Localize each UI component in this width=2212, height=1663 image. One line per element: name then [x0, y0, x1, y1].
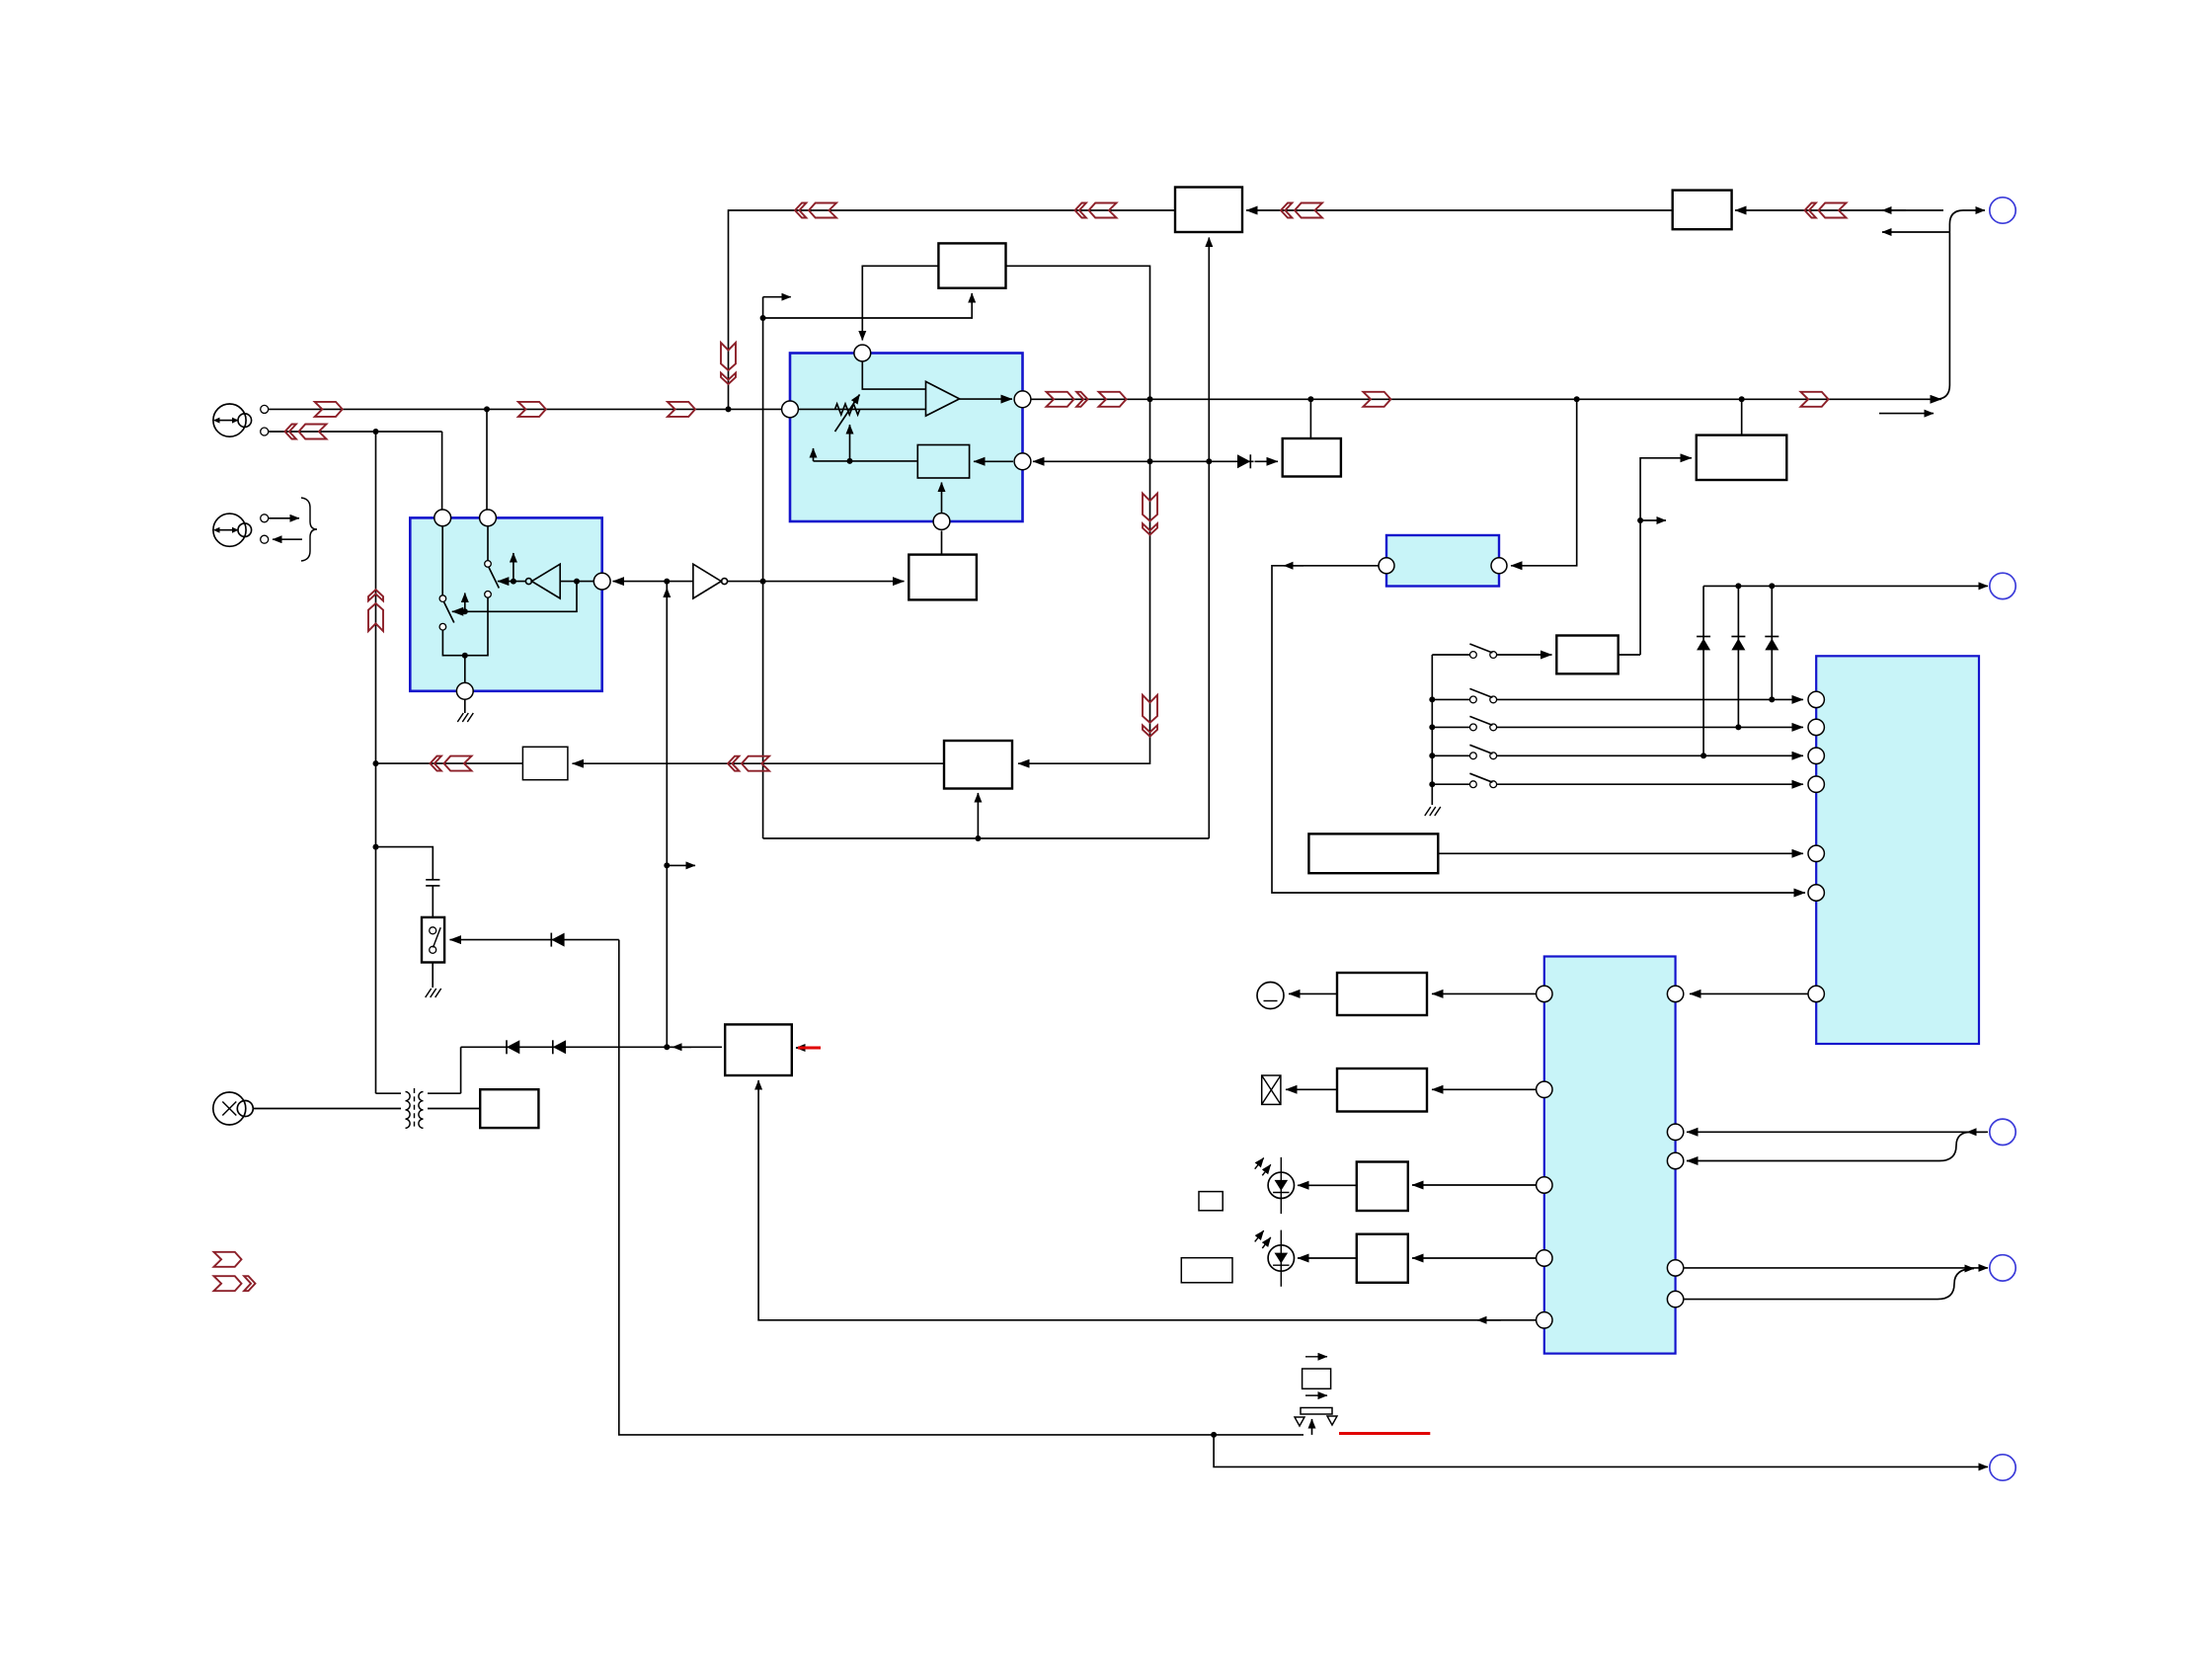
wire J2-1 stub arrow [269, 517, 299, 519]
switch SW3 [1469, 716, 1496, 730]
box E [1697, 436, 1787, 480]
wire inverter out to AGC box [728, 581, 905, 583]
wire SW4 to IC4 [1497, 754, 1803, 756]
arrow stub up IC2 left [813, 448, 815, 461]
connector OUT4 (blue) [1990, 1255, 2015, 1281]
wire boxJ to LED1 [1298, 1184, 1357, 1186]
transformer core [414, 1088, 416, 1130]
box F [1556, 636, 1618, 674]
wire IC5 to boxJ [1412, 1184, 1537, 1186]
wire D7 vertical [1771, 586, 1773, 699]
ground relay [426, 989, 441, 997]
capacitor C1 [426, 880, 439, 886]
wire xfmr secondary mid [428, 1108, 480, 1110]
wire boxG to IC4 [1438, 852, 1803, 854]
wire J2-2 stub arrow [273, 538, 302, 540]
IC5 pin Lh [1537, 986, 1552, 1001]
junction input/feedback [726, 406, 732, 412]
junction bus row2 [1429, 696, 1435, 702]
inverter U2 [693, 564, 728, 598]
IC5 pin Lk [1537, 1250, 1552, 1266]
IC3 mute block [1386, 535, 1499, 587]
IC4 pin sw3 [1808, 748, 1824, 763]
arrow stub up IC1 B [513, 553, 514, 582]
wire boxM bottom feed [977, 793, 979, 838]
junction riser/boxTop feed [760, 315, 766, 321]
box M [944, 741, 1012, 789]
chevron ret 2 [1075, 203, 1117, 218]
wire relay to gnd [432, 963, 434, 989]
wire diode bus to OUT2 [1703, 585, 1988, 587]
junction fb/riser1164 [1147, 458, 1153, 464]
box J [1357, 1162, 1408, 1212]
wire stub OUT1 ring [1882, 231, 1949, 233]
junction bus row5 [1429, 781, 1435, 787]
wire IC5 to boxH [1432, 992, 1537, 994]
junction bus row4 [1429, 752, 1435, 758]
junction row2/diode D7 [1769, 696, 1775, 702]
wire boxF out [1619, 654, 1640, 656]
arrow stub up IC1 A [464, 594, 466, 612]
junction bus row3 [1429, 724, 1435, 730]
chevron down double 2 [1143, 695, 1157, 737]
wire IC5 R2 from OUT3 [1687, 1131, 1988, 1133]
connector OUT5 (blue) [1990, 1455, 2015, 1480]
chevron ret 4 [1805, 203, 1847, 218]
wire boxTop left to IC2 top pin [862, 266, 938, 340]
IC5 pin Rr4 [1667, 1260, 1683, 1276]
resistor VR1 (variable) in IC2 [835, 395, 860, 433]
wire IC3 to block4 [1272, 566, 1805, 893]
wire D6 vertical [1737, 586, 1739, 727]
box delay (above IC2) [938, 243, 1005, 287]
symbol battery-minus [1257, 983, 1284, 1009]
box L [522, 747, 568, 779]
wire diode to boxD [1255, 460, 1279, 462]
chevron out 2 [1099, 392, 1127, 407]
varistor symbol [1295, 1408, 1337, 1435]
wire IC1 crossbar A [452, 582, 577, 612]
arrow on IC3 left wire [1284, 565, 1303, 567]
wire bend to OUT1 [1935, 210, 1985, 399]
wire switch bus [1431, 655, 1433, 805]
junction input/block1 [484, 406, 490, 412]
wire boxM to boxL [573, 762, 945, 764]
wire main input line [269, 408, 785, 410]
connector OUT2 (blue) [1990, 573, 2015, 598]
IC3 pin right [1491, 558, 1507, 574]
wire to OUT5 [1214, 1435, 1988, 1467]
junction inverter input [664, 579, 670, 585]
wire to IC1 pin1 [441, 432, 443, 511]
wire IC2 top-pin stem [862, 361, 925, 389]
wire IC5 R3 from OUT3 ring [1687, 1160, 1939, 1162]
box G (long) [1308, 833, 1438, 873]
chevron left double boxM-L [728, 756, 769, 771]
wire amp out to pin [960, 398, 1012, 400]
connector J1 (top-left input jack) [213, 404, 252, 436]
diode D10 [551, 933, 564, 947]
box small1 [1199, 1192, 1223, 1211]
wire main output line [1031, 398, 1941, 400]
box P (power supply) [725, 1024, 792, 1075]
IC5 pin Rr1 [1667, 986, 1683, 1001]
IC1 pin gnd (bottom) [456, 682, 473, 699]
IC2 pin out (right) [1014, 391, 1031, 408]
relay switch box [422, 917, 444, 963]
wire SW5 to IC4 [1497, 783, 1803, 785]
junction dbus/D6 [1735, 583, 1741, 589]
wire xfmr primary top [376, 1092, 402, 1094]
wire ret mid [1246, 209, 1673, 211]
chevron input 1 [315, 402, 343, 417]
wire IC1 out to inverter [613, 581, 693, 583]
switch SW1 [1469, 644, 1496, 658]
IC1 pin out (right) [593, 573, 610, 590]
wire IC5 R4 to OUT4 [1684, 1267, 1988, 1269]
curve OUT4 ring [1937, 1269, 1974, 1300]
chevron ret 1 [795, 203, 836, 218]
IC5 pin Rr3 [1667, 1152, 1683, 1168]
box small2 [1181, 1258, 1232, 1283]
IC1 input switching block [410, 517, 601, 690]
wire bus to SW3 [1432, 726, 1469, 728]
chevron out double [1047, 392, 1088, 407]
wire diode to relay [450, 939, 619, 941]
diode D7 [1765, 637, 1778, 651]
wire J1-2 line [269, 431, 442, 433]
switch S1 in IC1 [485, 561, 500, 597]
box K [1357, 1234, 1408, 1283]
curve OUT3 ring [1939, 1132, 1971, 1160]
wire boxE top stem [1741, 399, 1743, 435]
chevron input 2 [518, 402, 546, 417]
chevron return double-left [285, 425, 327, 439]
switch SW2 [1469, 688, 1496, 702]
IC5 display/driver block [1544, 957, 1676, 1354]
tiny box status [1303, 1369, 1331, 1388]
arrow up into VR1 [849, 425, 851, 461]
arrow up into junction [666, 589, 668, 596]
IC4 system control block [1816, 656, 1979, 1044]
wire to IC1 pin2 [486, 409, 488, 511]
wire riser x675 [666, 582, 668, 1048]
wire boxH to headphone sym [1289, 992, 1337, 994]
wire IC1 internal v1b [442, 597, 488, 656]
IC4 pin sw1 [1808, 691, 1824, 707]
transformer T1 primary [406, 1092, 411, 1129]
arrow stub right x1661 [1640, 519, 1666, 521]
wire return line left [729, 210, 1176, 409]
junction boxE-feed stub [1637, 517, 1643, 523]
IC4 pin boxG [1808, 845, 1824, 861]
box T (regulator) [480, 1089, 538, 1128]
connector OUT1 (blue) [1990, 198, 2015, 223]
diode D5 [1697, 637, 1710, 651]
legend chevron single [214, 1252, 242, 1267]
wire D5 vertical [1702, 586, 1704, 755]
symbol X-box [1262, 1075, 1281, 1104]
junction out/block3 drop [1574, 396, 1580, 402]
wire riser with stub [763, 297, 791, 838]
wire xfmr to diode row [460, 1047, 462, 1093]
pin J2-2 [261, 535, 269, 543]
wire ctl pin to filter [941, 483, 943, 514]
IC2 pin in (left) [782, 401, 799, 418]
wire bus to SW1 [1432, 654, 1469, 656]
junction IC1 B [511, 579, 516, 585]
junction bottom wire [1211, 1432, 1217, 1438]
wire IC2 fb inner [814, 460, 918, 462]
inverter U1a in IC1 [525, 564, 593, 598]
pin J1-2 [261, 428, 269, 436]
chevron down double 1 [1143, 494, 1157, 535]
wire fb pin to filter [974, 460, 1013, 462]
junction fb/riser1224 [1206, 458, 1212, 464]
wire bus to SW5 [1432, 783, 1469, 785]
IC2 pin fb (right2) [1014, 453, 1031, 470]
junction left-bus [373, 429, 379, 435]
LED D9 [1255, 1230, 1295, 1287]
wire ACin to xfmr [254, 1108, 401, 1110]
IC4 pin sw2 [1808, 719, 1824, 735]
wire cross link y849 [763, 837, 1210, 839]
junction out/boxD [1307, 396, 1313, 402]
pin J1-1 [261, 405, 269, 413]
arrow on IC5-boxP wire [1477, 1319, 1501, 1321]
IC2 volume/amp block [790, 354, 1023, 522]
wire IC5 R5 to OUT4 ring [1684, 1299, 1937, 1301]
junction VR1 ctl [847, 458, 853, 464]
wire boxE left feed [1640, 458, 1692, 655]
arrow mid ret right [1882, 209, 1906, 211]
pin J2-1 [261, 515, 269, 522]
wire IC1 internal v2 [487, 526, 489, 561]
diode D4 [1237, 454, 1250, 468]
wire bus to SW4 [1432, 754, 1469, 756]
IC5 pin Rr5 [1667, 1291, 1683, 1307]
junction y849/boxM [975, 835, 981, 841]
junction IC1 inv input [574, 579, 580, 585]
IC4 pin mute [1808, 885, 1824, 901]
chevron up double on left bus [368, 590, 383, 631]
wire ret right [1735, 209, 1943, 211]
switch S2 in IC1 [439, 595, 454, 630]
diode D12 [553, 1040, 566, 1054]
junction row4/diode D5 [1700, 752, 1706, 758]
wire IC5 to boxI [1432, 1088, 1537, 1090]
wire IC5 to boxP [758, 1080, 1536, 1320]
wire IC2 input inner [799, 408, 926, 410]
power red line [798, 1047, 821, 1050]
arrow stub right x675 [667, 864, 695, 866]
wire IC1 S1 link [498, 581, 526, 583]
connector J2 (second input jack) [213, 514, 252, 546]
arrow into dbus junction [672, 1046, 691, 1048]
wire IC1 internal v1 [441, 526, 443, 595]
IC4 pin link [1808, 986, 1824, 1001]
wire IC5 to boxK [1412, 1257, 1537, 1259]
connector OUT3 (blue) [1990, 1119, 2015, 1145]
junction left bus / boxL wire [373, 760, 379, 766]
IC5 pin Rr2 [1667, 1124, 1683, 1140]
chevron down double feedback [721, 343, 736, 384]
IC5 pin Lj [1537, 1177, 1552, 1193]
IC3 pin left [1379, 558, 1394, 574]
wire bus to SW2 [1432, 698, 1469, 700]
IC5 pin Li [1537, 1081, 1552, 1097]
IC5 pin Lp [1537, 1312, 1552, 1328]
box top2 (filter) [1673, 191, 1732, 230]
wire IC4 to IC5 [1690, 992, 1808, 994]
transformer T1 secondary [419, 1092, 424, 1129]
IC2 pin top [854, 345, 871, 361]
switch SW5 [1469, 773, 1496, 787]
junction row3/diode D6 [1735, 724, 1741, 730]
junction riser x675 stub [664, 862, 670, 868]
wire riser x1224 [1208, 238, 1210, 839]
wire fb line [1033, 460, 1254, 462]
junction inv-out / riser [760, 579, 766, 585]
diode D6 [1731, 637, 1745, 651]
junction IC1 bottom [462, 653, 468, 659]
junction diode-row/inv riser [664, 1044, 670, 1050]
LED D8 [1255, 1157, 1295, 1214]
chevron input 3 [668, 402, 695, 417]
red power line bottom [1339, 1432, 1430, 1435]
box AGC (below amp) [908, 555, 977, 600]
box top1 (filter) [1175, 188, 1242, 233]
junction out/boxE drop [1739, 396, 1745, 402]
wire SW2 to IC4 [1497, 698, 1803, 700]
wire SW1 to boxF [1497, 654, 1552, 656]
ground switch bus [1425, 807, 1441, 816]
wire boxK to LED2 [1298, 1257, 1357, 1259]
chevron ret 3 [1281, 203, 1322, 218]
box I [1337, 1069, 1427, 1112]
arrow above tinybox [1305, 1356, 1327, 1358]
box filter in IC2 [917, 445, 969, 479]
wire riser x1164 [1018, 399, 1150, 763]
wire boxTop feed [763, 293, 973, 318]
IC1 pin top-2 [480, 510, 497, 526]
chevron out 3 [1363, 392, 1390, 407]
power arrow into boxP [796, 1047, 818, 1049]
IC2 pin ctl (bottom) [933, 514, 950, 530]
brace at J2 [301, 498, 317, 561]
connector ACin (X) [213, 1092, 253, 1125]
ground IC1 [457, 699, 473, 722]
diode row2 wire [461, 1046, 722, 1048]
wire stub OUT1 low [1879, 413, 1934, 415]
wire boxD top stem [1309, 399, 1311, 438]
wire left vertical bus [375, 432, 377, 1093]
IC4 pin sw4 [1808, 776, 1824, 792]
wire AGC to IC2 ctl pin [941, 531, 943, 555]
chevron out 4 [1801, 392, 1829, 407]
junction out/riser1164 [1147, 396, 1153, 402]
wire SW3 to IC4 [1497, 726, 1803, 728]
wire boxTop right to riser x1164 [1006, 266, 1150, 399]
wire relay drop [619, 940, 1303, 1435]
chevron left double boxL-bus [431, 756, 472, 771]
junction IC1 A [462, 608, 468, 614]
box D (det) [1283, 438, 1341, 477]
junction dbus/D7 [1769, 583, 1775, 589]
wire xfmr secondary top [428, 1092, 461, 1094]
IC1 pin top-1 [434, 510, 451, 526]
wire branch to cap [376, 847, 434, 880]
wire IC1 to gnd pin [464, 656, 466, 683]
arrow below tinybox [1305, 1394, 1327, 1396]
amp A1 triangle in IC2 [926, 381, 960, 416]
wire boxL to left bus [376, 762, 523, 764]
wire main to IC3 [1511, 399, 1577, 566]
junction left bus / relay branch [373, 844, 379, 850]
switch SW4 [1469, 745, 1496, 758]
diode D11 [507, 1040, 519, 1054]
box H [1337, 973, 1427, 1015]
wire boxI to motor sym [1286, 1088, 1337, 1090]
wire cap to relay [432, 886, 434, 917]
legend chevron double [214, 1276, 256, 1291]
